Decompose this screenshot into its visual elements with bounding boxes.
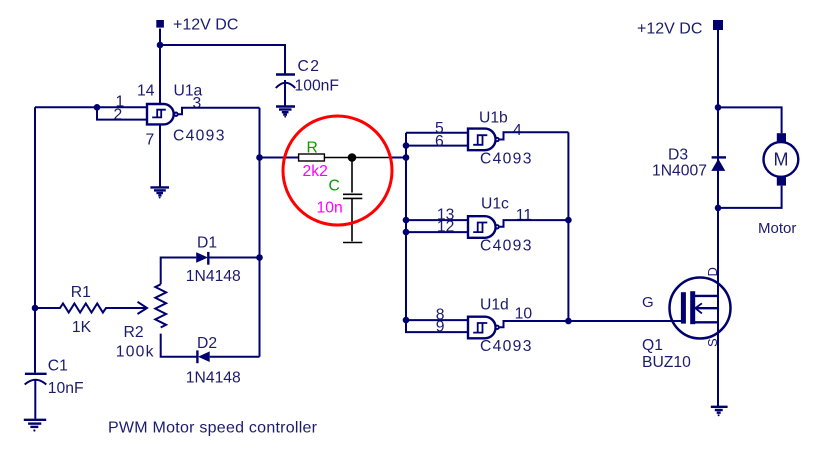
wire: bus to pin 5 [406,132,468,134]
diode D1 1N4148 [186,235,260,286]
wire: left feedback rail [34,107,36,372]
wire: into right bus (navy) [391,157,406,159]
svg-text:10: 10 [515,306,533,323]
wire: right paralleling bus [567,132,569,321]
svg-text:+12V DC: +12V DC [637,21,702,38]
highlight red circle [283,116,392,225]
wire: +12V rail to C2 [160,45,285,74]
wire: bus to pin 6 [406,145,468,147]
wire: pin 14 from rail to U1a top [159,45,161,104]
NAND gate U1c (C4093, pins 13,12,11) [468,196,533,255]
svg-text:R2: R2 [124,324,144,341]
node: D1 to bus [256,254,263,261]
node: motor bottom junction [715,205,722,212]
pin 11 label [516,207,532,224]
node: U1c input taps [403,217,410,224]
svg-text:C4093: C4093 [173,128,226,145]
power terminal +12V DC (left) [156,17,238,34]
svg-text:12: 12 [437,219,454,236]
resistor R1 1K [35,284,108,336]
svg-text:R: R [307,140,318,157]
node: pin 12 tap [403,229,410,236]
svg-text:100nF: 100nF [295,78,339,95]
node: U1c output junction [565,217,572,224]
pin 2 label [114,107,123,124]
wire: U1a output bus down to D1/D2 [259,108,261,357]
wire: motor branch top [718,107,782,133]
node: RC junction (black) [348,153,357,162]
pin 9 label [436,319,445,336]
svg-text:U1b: U1b [479,110,508,127]
capacitor C 10n (highlighted) [317,158,363,242]
wire: bus to resistor R [260,157,299,159]
svg-text:2k2: 2k2 [303,163,328,180]
svg-text:9: 9 [436,319,445,336]
NAND gate U1d (C4093, pins 8,9,10) [468,297,533,356]
svg-text:M: M [774,150,789,170]
wire: right supply down to motor branch [717,30,719,107]
power terminal +12V DC (right) [637,20,723,38]
svg-text:U1c: U1c [481,196,509,213]
node: R1 / C1 junction [32,305,39,312]
svg-text:2: 2 [114,107,123,124]
svg-text:10n: 10n [317,200,343,217]
wire: left gate bus [405,133,407,332]
NAND gate U1a (C4093, pins 1,2,3,14,7) [137,83,226,149]
svg-text:D2: D2 [197,335,217,352]
svg-text:Motor: Motor [758,220,796,237]
svg-text:14: 14 [137,83,155,100]
svg-text:C4093: C4093 [480,338,533,355]
svg-text:1N4007: 1N4007 [652,163,707,180]
wire: bus to pin 12 [406,231,468,233]
pin 10 label [515,306,533,323]
wire: U1d output to gate of Q1 [500,321,681,327]
svg-text:U1d: U1d [480,297,509,314]
wire: U1a output pin 3 to vertical bus [178,108,259,114]
svg-text:1N4148: 1N4148 [186,370,241,387]
node: U1d pin 8 tap [403,317,410,324]
ground (under C, black bar) [343,242,362,244]
pin 12 label [437,219,454,236]
node: motor top junction [715,104,722,111]
svg-text:+12V DC: +12V DC [173,17,238,34]
svg-text:D1: D1 [197,235,217,252]
svg-text:11: 11 [516,207,532,224]
wire: R to C node (black) [324,157,391,159]
node: RC input tap [403,154,410,161]
wire: feedback to pin 1 [35,106,147,108]
svg-text:D: D [705,267,720,276]
motor M [758,133,798,237]
wire: wiper arrow to R2 [108,302,147,314]
svg-text:PWM Motor speed controller: PWM Motor speed controller [108,420,318,437]
pin 1 label [116,94,125,111]
title text [108,420,318,437]
svg-text:C1: C1 [48,358,68,375]
node: +12V rail junction [157,42,164,49]
diode D2 1N4148 [186,335,260,387]
svg-text:R1: R1 [71,284,91,301]
node: U1d output junction [565,318,572,325]
svg-text:1N4148: 1N4148 [186,268,241,285]
node: pin 6 tap [403,142,410,149]
svg-text:6: 6 [435,133,444,150]
ground (under C1) [24,420,46,432]
wire: pin 7 to ground [159,124,161,186]
ground (under C2) [276,107,295,118]
node: bus to R junction [256,154,263,161]
wire: bus to pin 8 [406,319,468,321]
wire: R2 bottom to D2 [161,334,197,357]
wire: bus to pin 13 [406,219,468,221]
pin 13 label [437,207,455,224]
NAND gate U1b (C4093, pins 5,6,4) [468,110,533,168]
svg-text:10nF: 10nF [48,380,84,397]
svg-text:BUZ10: BUZ10 [642,354,691,371]
wire: U1b output to right bus [500,132,569,139]
wire: R2 top to D1 [161,258,197,285]
svg-text:4: 4 [513,122,522,139]
wire: bus corner to pin 9 [406,320,468,332]
pin 5 label [435,120,444,137]
svg-text:D3: D3 [668,147,688,164]
svg-text:1K: 1K [72,319,92,336]
svg-text:G: G [642,294,654,311]
svg-text:100k: 100k [116,344,155,361]
svg-text:7: 7 [146,132,155,149]
pin 3 label [193,95,202,112]
ground (under U1a) [150,187,169,198]
pin 8 label [436,307,445,324]
svg-text:Q1: Q1 [642,337,663,354]
svg-text:C: C [329,178,340,195]
svg-text:C4093: C4093 [480,238,533,255]
pin 6 label [435,133,444,150]
diode D3 1N4007 [652,147,726,180]
wire: tie down to pin 2 [97,107,147,119]
resistor R 2k2 (highlighted) [299,140,328,181]
svg-text:S: S [705,338,720,347]
svg-text:3: 3 [193,95,202,112]
potentiometer R2 100k [116,284,166,360]
ground (under Q1) [711,407,728,416]
wire: left supply square down to rail junction [159,29,161,46]
wire: motor bottom branch [718,186,782,208]
transistor Q1 BUZ10 (MOSFET) [642,267,731,371]
capacitor C2 100nF [276,58,339,106]
capacitor C1 10nF [25,358,84,419]
wire: supply down through D3 [717,107,719,406]
node: pins 1-2 tie [94,104,101,111]
wire: U1c output to right bus [500,220,569,227]
svg-text:C2: C2 [298,58,321,75]
pin 4 label [513,122,522,139]
svg-text:C4093: C4093 [480,151,533,168]
